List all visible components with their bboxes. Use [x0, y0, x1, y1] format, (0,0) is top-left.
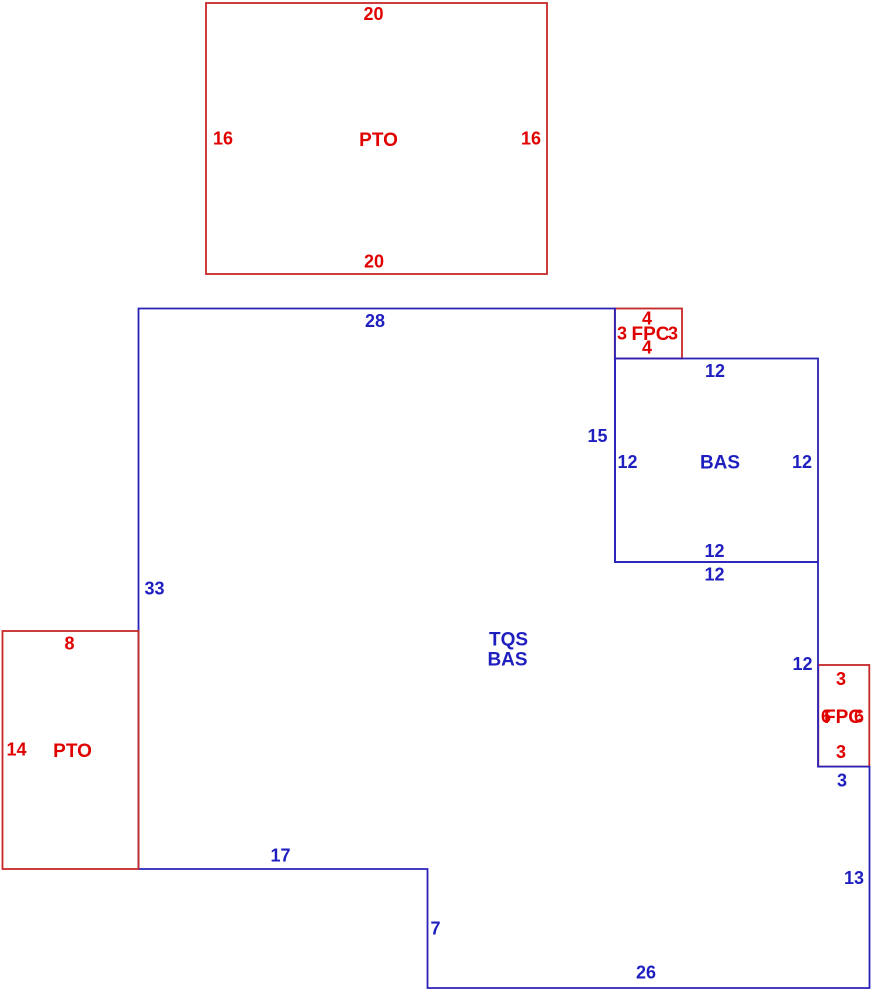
svg-text:17: 17 — [270, 846, 290, 866]
svg-text:12: 12 — [704, 565, 724, 585]
room PTO (bottom-left) outline — [3, 631, 139, 869]
svg-text:15: 15 — [587, 426, 607, 446]
room TQS BAS polygon outline — [139, 309, 870, 989]
room FPC (upper, beside BAS) outline — [615, 309, 682, 359]
svg-text:BAS: BAS — [700, 453, 740, 474]
svg-text:PTO: PTO — [359, 130, 398, 151]
svg-text:12: 12 — [705, 361, 725, 381]
svg-text:3: 3 — [617, 324, 627, 344]
svg-text:33: 33 — [144, 579, 164, 599]
svg-text:7: 7 — [430, 919, 440, 939]
svg-text:3: 3 — [668, 324, 678, 344]
svg-text:28: 28 — [365, 311, 385, 331]
svg-text:12: 12 — [792, 452, 812, 472]
svg-text:PTO: PTO — [53, 741, 92, 762]
svg-text:3: 3 — [836, 742, 846, 762]
svg-text:16: 16 — [521, 129, 541, 149]
room PTO (top) outline — [206, 3, 547, 274]
svg-text:26: 26 — [636, 963, 656, 983]
svg-text:12: 12 — [617, 452, 637, 472]
svg-text:4: 4 — [642, 338, 652, 358]
svg-text:14: 14 — [6, 740, 26, 760]
room BAS outline — [615, 359, 818, 563]
svg-text:TQS: TQS — [489, 630, 528, 651]
svg-text:BAS: BAS — [487, 650, 527, 671]
svg-text:20: 20 — [363, 4, 383, 24]
svg-text:6: 6 — [854, 707, 864, 727]
room FPC (right side, small) outline — [818, 665, 869, 767]
svg-text:3: 3 — [837, 771, 847, 791]
svg-text:3: 3 — [836, 669, 846, 689]
svg-text:12: 12 — [704, 541, 724, 561]
svg-text:8: 8 — [64, 634, 74, 654]
svg-text:13: 13 — [844, 868, 864, 888]
svg-text:20: 20 — [364, 252, 384, 272]
svg-text:12: 12 — [792, 654, 812, 674]
svg-text:16: 16 — [213, 129, 233, 149]
